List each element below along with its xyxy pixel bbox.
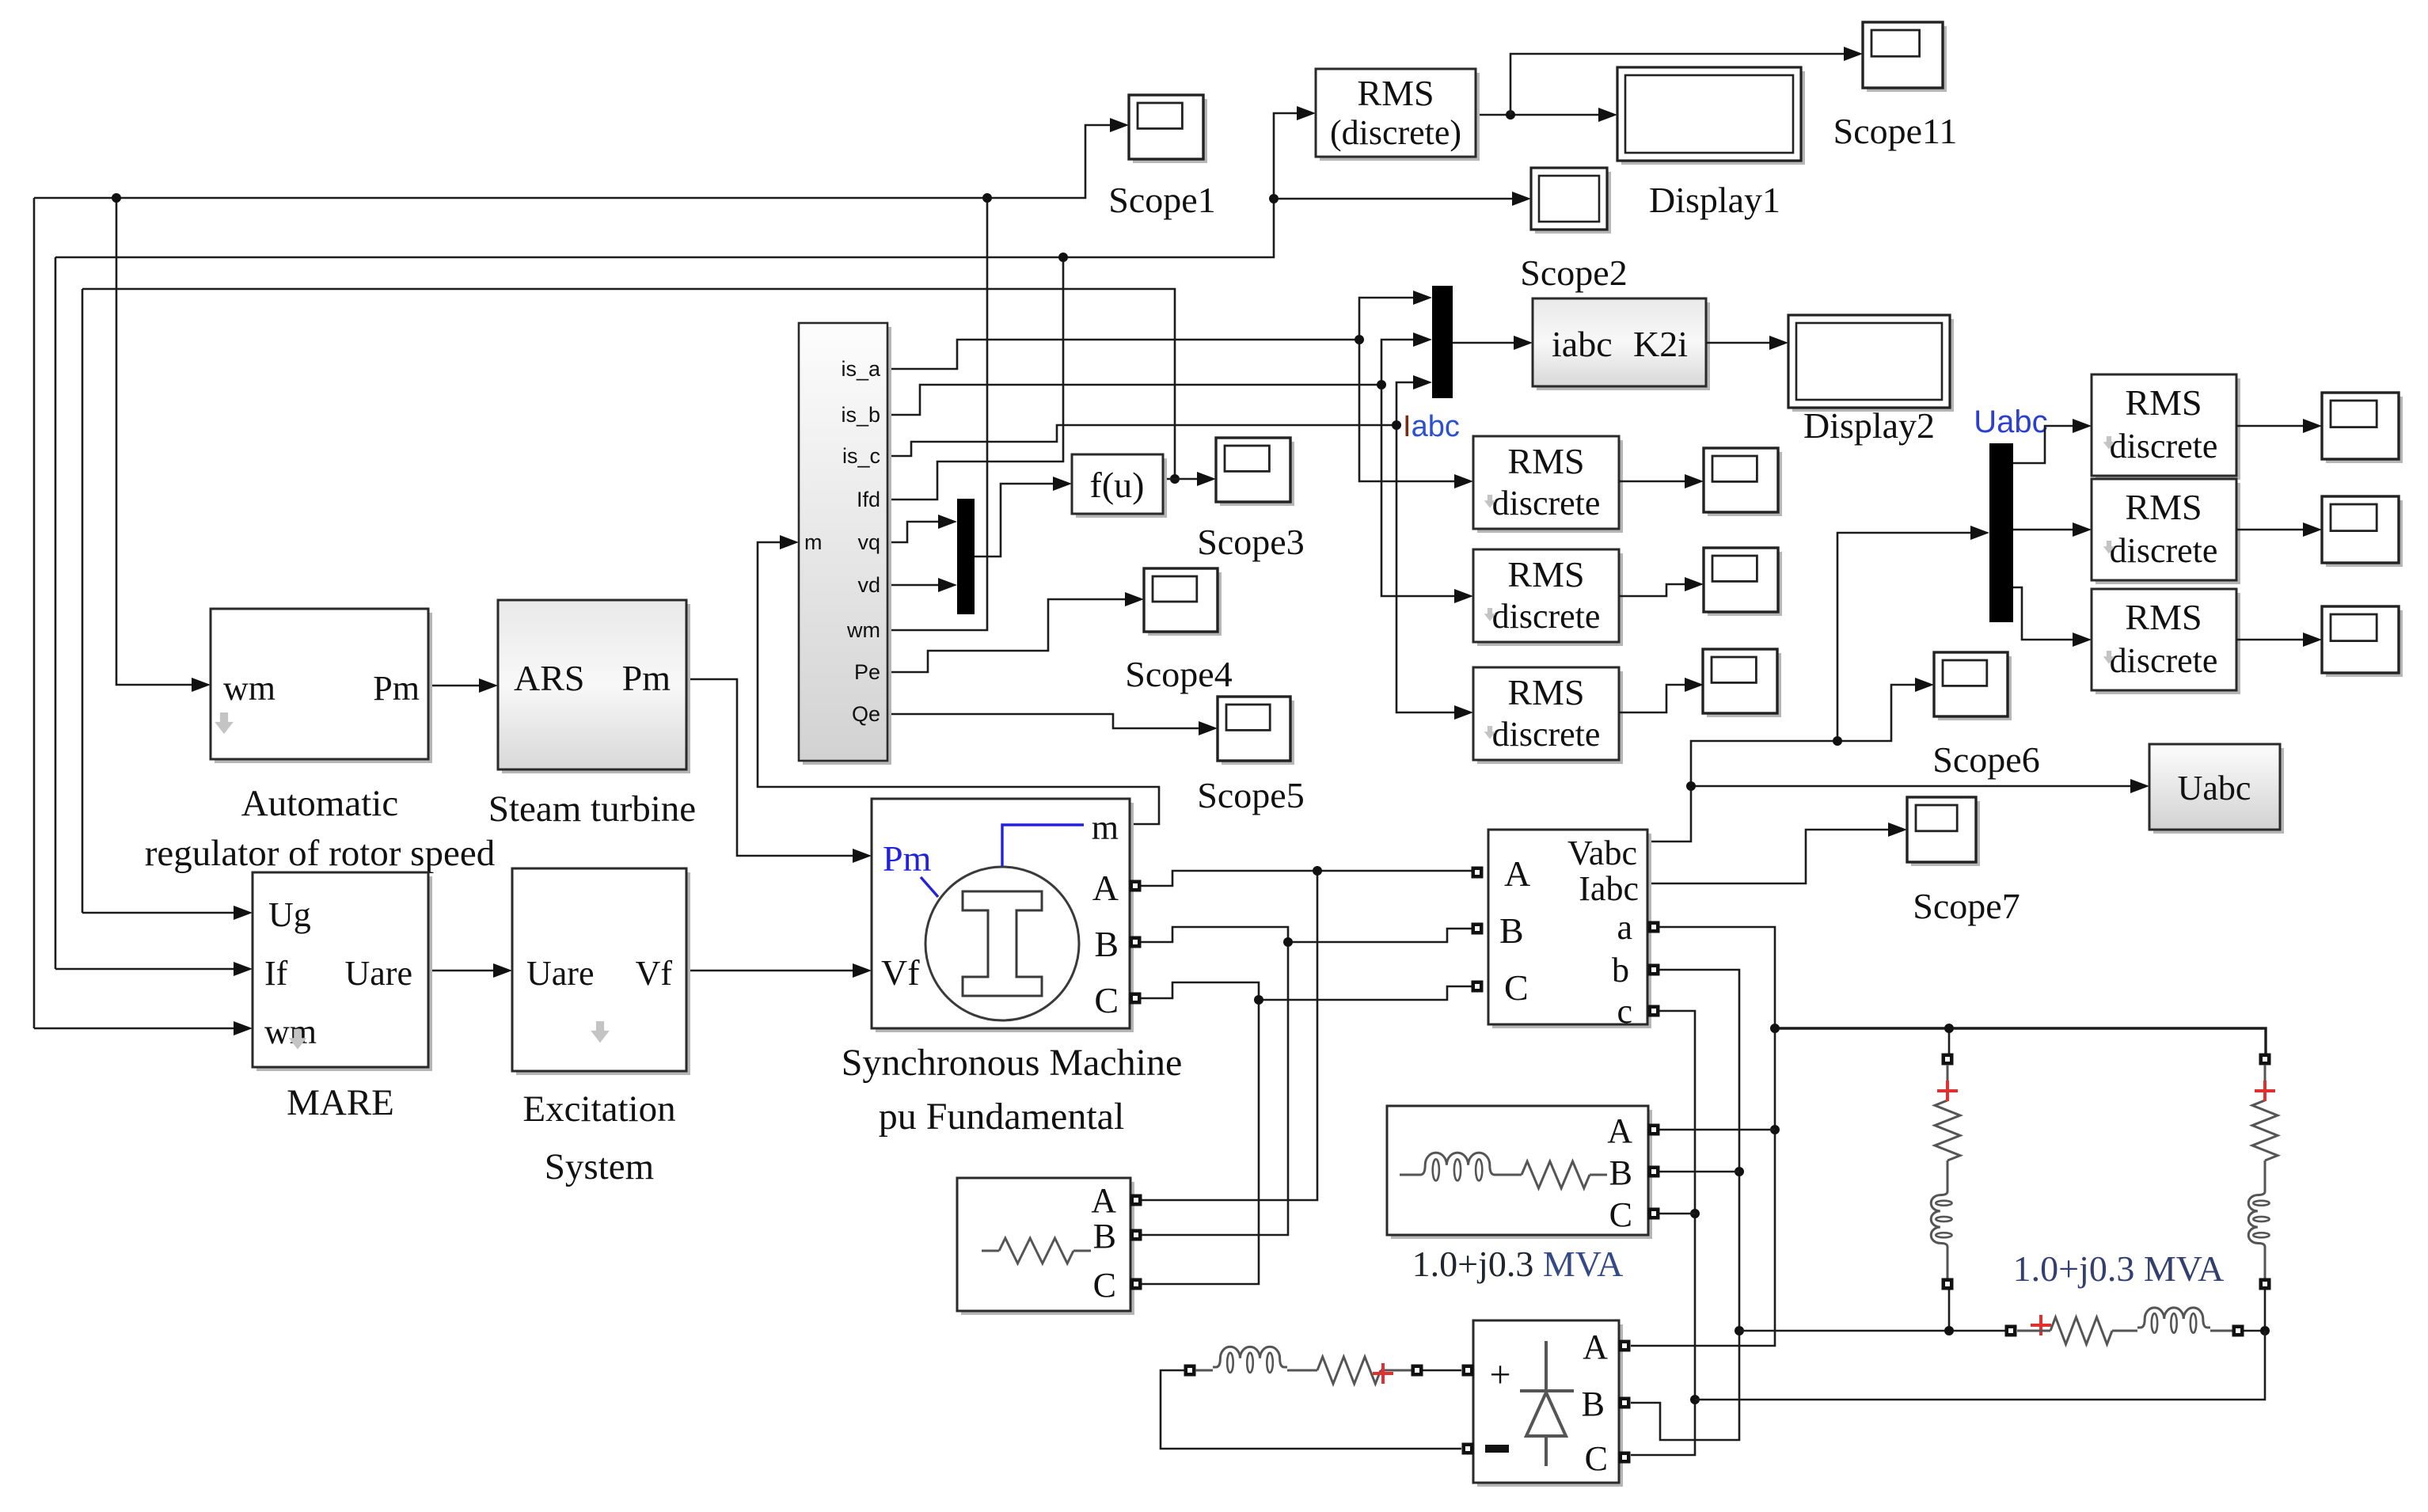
label load B xyxy=(1093,1217,1116,1256)
svg-text:A: A xyxy=(1504,853,1530,894)
wire RL stub xyxy=(1195,1370,1213,1372)
wire bar out1 xyxy=(2013,419,2092,463)
wire MVA load C wire xyxy=(1659,1213,1695,1215)
svg-text:A: A xyxy=(1583,1328,1608,1366)
port MVA C conn xyxy=(1648,1208,1660,1220)
svg-text:B: B xyxy=(1093,1217,1116,1256)
wire h branch right stub xyxy=(2210,1330,2232,1332)
svg-text:discrete: discrete xyxy=(1492,597,1601,636)
port left branch top port xyxy=(1942,1054,1954,1066)
wire is_b to mux input 2 xyxy=(1381,332,1432,385)
node junction is_c Iabc xyxy=(1392,420,1401,430)
label Uabc goto label xyxy=(2178,769,2251,807)
wire bottom b horizontal xyxy=(1739,1330,2005,1332)
label RMS right2 line2 xyxy=(2110,531,2218,570)
label RMS top line2 xyxy=(1330,113,1461,152)
svg-text:Scope11: Scope11 xyxy=(1833,111,1958,151)
svg-text:C: C xyxy=(1504,967,1529,1008)
wire Pe to Scope4 xyxy=(889,592,1144,672)
scope icon right scope1 xyxy=(2322,393,2403,463)
node junction Vabc goto xyxy=(1686,781,1696,791)
svg-text:a: a xyxy=(1617,908,1632,947)
gray arrow RMS mid3 sample xyxy=(1484,726,1496,739)
label Display1 xyxy=(1649,180,1780,220)
svg-text:discrete: discrete xyxy=(1492,484,1601,522)
label Uabc signal label xyxy=(1974,405,2047,439)
port VI C conn xyxy=(1472,981,1484,993)
label bus port is_c xyxy=(842,444,880,468)
svg-text:RMS: RMS xyxy=(2125,382,2202,423)
svg-text:RMS: RMS xyxy=(1507,554,1584,595)
label bus port Qe xyxy=(852,702,880,726)
wire mux to iabc K2i xyxy=(1453,336,1533,350)
scope icon Scope4 xyxy=(1144,568,1222,636)
wire RMS discrete output to Display xyxy=(1476,108,1617,122)
port h branch left port xyxy=(2005,1325,2017,1337)
label RMS mid3 line2 xyxy=(1492,715,1601,754)
label 1.0+j0.3 MVA right xyxy=(2013,1248,2225,1289)
gray arrow RMS mid2 sample xyxy=(1484,608,1496,621)
svg-text:vq: vq xyxy=(857,530,880,554)
svg-text:discrete: discrete xyxy=(1492,715,1601,754)
node junction Vabc Scope6 xyxy=(1833,736,1842,746)
svg-text:Iabc: Iabc xyxy=(1579,869,1639,908)
port rect B conn xyxy=(1619,1397,1631,1409)
svg-text:1.0+j0.3 MVA: 1.0+j0.3 MVA xyxy=(1412,1244,1624,1284)
svg-text:C: C xyxy=(1609,1195,1632,1234)
node junction is_b xyxy=(1377,380,1386,389)
scope icon right scope2 xyxy=(2322,496,2403,567)
inductor RL inductor xyxy=(1213,1347,1287,1373)
label Ug port xyxy=(268,895,311,934)
port VI B conn xyxy=(1472,923,1484,935)
port MVA A conn xyxy=(1648,1124,1660,1136)
label regulator of rotor speed xyxy=(145,833,495,874)
node junction Ifd to line B xyxy=(1058,253,1068,262)
label MARE xyxy=(287,1082,394,1123)
svg-text:discrete: discrete xyxy=(2110,531,2218,570)
inductor MVA load inductor xyxy=(1417,1153,1498,1180)
node junction line B riser x1609 xyxy=(1269,194,1279,203)
label RMS mid2 line1 xyxy=(1507,554,1584,595)
label Pm port xyxy=(373,669,420,708)
block Steam turbine ARS xyxy=(498,600,690,773)
block Uabc goto xyxy=(2149,744,2284,834)
label Synchronous Machine xyxy=(842,1042,1183,1084)
display icon Display1 xyxy=(1531,168,1611,234)
node junction a bus left xyxy=(1770,1024,1780,1033)
svg-text:(discrete): (discrete) xyxy=(1330,113,1461,152)
svg-text:Scope5: Scope5 xyxy=(1197,775,1304,815)
wire left branch lower stub xyxy=(1947,1249,1949,1278)
svg-text:K2i: K2i xyxy=(1633,324,1688,364)
inductor h branch inductor xyxy=(2137,1308,2210,1333)
svg-text:Display2: Display2 xyxy=(1803,405,1935,446)
wire bar out2 xyxy=(2013,522,2092,537)
wire is_a to RMS discrete 1 xyxy=(1359,340,1473,488)
node junction line A x1247 xyxy=(982,193,992,203)
node junction phase B xyxy=(1283,937,1293,947)
svg-text:RMS: RMS xyxy=(2125,597,2202,637)
label RMS mid3 line1 xyxy=(1507,672,1584,712)
scope icon Scope6 xyxy=(1934,652,2012,720)
wire MVA load B wire xyxy=(1659,1171,1739,1173)
svg-text:B: B xyxy=(1499,910,1524,951)
svg-text:is_c: is_c xyxy=(842,444,880,468)
svg-text:m: m xyxy=(1092,808,1119,847)
label bus port vq xyxy=(857,530,880,554)
wire bar out3 xyxy=(2013,587,2092,647)
label RMS right1 line1 xyxy=(2125,382,2202,423)
wire left branch bottom link xyxy=(1948,1290,1951,1331)
svg-text:Scope2: Scope2 xyxy=(1520,253,1627,293)
label VI C xyxy=(1504,967,1529,1008)
port machine A conn xyxy=(1130,880,1142,892)
block iabc K2i xyxy=(1533,298,1710,390)
wire MARE Uare to Excitation xyxy=(428,963,512,978)
svg-text:RMS: RMS xyxy=(2125,487,2202,527)
wire machine phase C to V-I C xyxy=(1141,982,1472,1000)
port VI c conn xyxy=(1648,1005,1660,1017)
wire right RLC link xyxy=(2244,1330,2265,1332)
wire Qe to Scope5 xyxy=(889,714,1218,735)
wire is_c to mux input 3 xyxy=(1396,375,1432,425)
svg-text:Scope3: Scope3 xyxy=(1197,522,1304,562)
wire RMS mid3 out xyxy=(1619,678,1704,712)
block Fcn f(u) xyxy=(1072,454,1167,518)
port rect plus conn xyxy=(1462,1365,1474,1377)
svg-text:discrete: discrete xyxy=(2110,641,2218,680)
gray arrow RMS mid1 sample xyxy=(1484,495,1496,508)
block Synchronous Machine xyxy=(872,799,1134,1032)
svg-text:MARE: MARE xyxy=(287,1082,394,1123)
svg-text:Vf: Vf xyxy=(881,952,920,993)
port rect C conn xyxy=(1619,1452,1631,1464)
label bus port Ifd xyxy=(857,488,880,511)
label MVA C xyxy=(1609,1195,1632,1234)
wire right branch lower stub xyxy=(2264,1249,2267,1278)
label machine B port xyxy=(1094,924,1119,964)
svg-text:If: If xyxy=(264,954,288,993)
wire MARE Ug input xyxy=(82,906,253,920)
block MARE xyxy=(253,872,432,1071)
wire If left vertical xyxy=(55,257,57,969)
svg-text:C: C xyxy=(1094,980,1119,1020)
label bus port wm xyxy=(846,618,880,642)
display icon Display xyxy=(1617,67,1805,165)
label Uare in port xyxy=(526,954,595,993)
svg-text:Excitation: Excitation xyxy=(522,1088,675,1130)
svg-text:+: + xyxy=(1489,1354,1510,1396)
scope icon Scope7 xyxy=(1907,797,1980,866)
port rect A conn xyxy=(1619,1340,1631,1352)
wire MVA load A wire xyxy=(1659,1129,1775,1131)
scope icon right scope3 xyxy=(2322,606,2403,677)
node junction phase A xyxy=(1313,866,1322,876)
label System xyxy=(545,1146,654,1187)
wire Ug left vertical xyxy=(82,289,84,913)
wire Vabc to bus bar xyxy=(1647,526,1989,841)
svg-text:Iabc: Iabc xyxy=(1403,410,1460,443)
port rect minus conn xyxy=(1462,1443,1474,1455)
label Uare out port xyxy=(345,954,413,993)
resistor in RLC load xyxy=(982,1238,1091,1263)
port machine B conn xyxy=(1130,936,1142,948)
mux Scope2 iabc xyxy=(1432,286,1453,398)
wire RMS mid1 out xyxy=(1619,474,1704,488)
svg-text:Ifd: Ifd xyxy=(857,488,880,511)
label pu Fundamental xyxy=(879,1096,1125,1138)
wire Iabc to Scope7 xyxy=(1647,822,1907,883)
wire phase C branch to RLC load C xyxy=(1142,1000,1259,1284)
resistor right branch xyxy=(2252,1065,2278,1189)
scope icon Scope1 xyxy=(1129,95,1207,163)
label rect C xyxy=(1585,1439,1608,1478)
wire Vabc branch to Uabc goto xyxy=(1691,779,2149,793)
svg-text:vd: vd xyxy=(857,573,880,597)
wire bottom c horizontal xyxy=(1695,1331,2265,1400)
label Scope6 xyxy=(1932,739,2039,780)
wire Vabc branch to Scope6 xyxy=(1837,678,1934,741)
svg-text:Ug: Ug xyxy=(268,895,311,934)
wire MARE wm input xyxy=(34,1021,253,1035)
red plus left branch plus xyxy=(1937,1081,1958,1101)
label rect A xyxy=(1583,1328,1608,1366)
block Three-Phase V-I Measurement xyxy=(1488,830,1651,1028)
svg-text:Vabc: Vabc xyxy=(1567,834,1637,872)
label VI c xyxy=(1617,992,1632,1031)
block bus selector xyxy=(799,323,891,765)
port RL left port xyxy=(1184,1365,1196,1377)
wire If line B to RMS discrete input xyxy=(55,106,1316,257)
label ARS port xyxy=(514,658,584,698)
scope icon mid scope3 xyxy=(1703,649,1781,717)
port load C conn xyxy=(1130,1278,1142,1290)
svg-text:discrete: discrete xyxy=(2110,427,2218,465)
wire machine phase B to V-I B xyxy=(1141,927,1472,942)
svg-text:iabc: iabc xyxy=(1552,324,1613,364)
label Vf out port xyxy=(636,954,673,993)
wire f(u) output to Scope3 xyxy=(1163,472,1216,486)
port h branch right port xyxy=(2232,1325,2244,1337)
label VI a xyxy=(1617,908,1632,947)
port RL right port xyxy=(1412,1365,1423,1377)
wire branch to Scope11 xyxy=(1510,47,1863,115)
wire ARS Pm to machine Pm xyxy=(686,679,872,863)
machine rotor circle xyxy=(925,867,1079,1020)
port left branch bottom port xyxy=(1942,1278,1954,1290)
node junction left branch bottom xyxy=(1944,1326,1954,1335)
label Pm blue xyxy=(883,838,938,897)
node junction phase C xyxy=(1254,995,1263,1005)
port VI a conn xyxy=(1648,921,1660,933)
label VI b xyxy=(1612,951,1629,990)
block diode rectifier xyxy=(1473,1320,1623,1487)
svg-text:c: c xyxy=(1617,992,1632,1031)
label f(u) xyxy=(1090,465,1145,505)
node junction f(u) output xyxy=(1170,474,1180,484)
wire right branch bottom link xyxy=(2264,1290,2267,1331)
svg-text:Synchronous Machine: Synchronous Machine xyxy=(842,1042,1183,1084)
wire wm feedback line A to Scope1 xyxy=(34,118,1129,198)
label machine A port xyxy=(1092,868,1119,908)
wire m loop machine to bus selector xyxy=(758,535,1159,824)
wire branch to Display1 xyxy=(1274,192,1531,206)
bus bar Uabc demux xyxy=(1989,443,2013,622)
svg-text:is_a: is_a xyxy=(841,357,881,381)
wire branch to Automatic regulator wm xyxy=(116,198,211,692)
wire phase a vertical to rectifier A xyxy=(1631,927,1775,1346)
svg-text:ARS: ARS xyxy=(514,658,584,698)
label VI Iabc xyxy=(1579,869,1639,908)
wire Automatic regulator Pm to ARS xyxy=(428,678,498,693)
svg-text:f(u): f(u) xyxy=(1090,465,1145,505)
label 1.0+j0.3 MVA left xyxy=(1412,1244,1624,1284)
wire machine phase A to V-I A xyxy=(1141,871,1472,886)
svg-text:is_b: is_b xyxy=(841,403,880,427)
node junction line A x147 xyxy=(112,193,121,203)
label Scope5 xyxy=(1197,775,1304,815)
node junction c bottom xyxy=(1690,1395,1700,1404)
label MVA A xyxy=(1607,1111,1632,1150)
wire MARE If input xyxy=(55,962,253,976)
wire branch to left RLC top xyxy=(1948,1028,1951,1054)
label RMS mid1 line2 xyxy=(1492,484,1601,522)
resistor in MVA load xyxy=(1400,1161,1607,1188)
label Steam turbine xyxy=(488,788,696,830)
svg-text:Vf: Vf xyxy=(636,954,673,993)
gray arrow MARE sample xyxy=(289,1029,306,1050)
block RMS discrete mid1 xyxy=(1473,436,1623,533)
label bus port is_a xyxy=(841,357,881,381)
wire wm feedback left vertical to MARE wm xyxy=(33,198,36,1028)
label rect minus xyxy=(1485,1445,1509,1453)
wire dc loop wire xyxy=(1161,1370,1461,1449)
wire K2i to Display2 xyxy=(1706,336,1788,350)
label RMS mid1 line1 xyxy=(1507,441,1584,481)
svg-text:B: B xyxy=(1094,924,1119,964)
wire mux output to f(u) xyxy=(975,477,1072,557)
svg-text:Scope7: Scope7 xyxy=(1913,886,2020,926)
node junction RMS output xyxy=(1506,110,1515,120)
wire Ifd riser from bus selector xyxy=(889,257,1063,500)
svg-text:Qe: Qe xyxy=(852,702,880,726)
label Scope2 xyxy=(1520,253,1627,293)
label load C xyxy=(1093,1266,1116,1305)
label bus m port xyxy=(804,530,823,554)
wire is_c line xyxy=(889,425,1396,456)
wire phase B branch to RLC load B xyxy=(1142,942,1288,1235)
label VI Vabc xyxy=(1567,834,1637,872)
node junction a bus mid xyxy=(1944,1024,1954,1033)
mux vq vd xyxy=(957,499,975,614)
resistor left branch xyxy=(1935,1065,1960,1189)
port VI b conn xyxy=(1648,964,1660,976)
label Scope11 xyxy=(1833,111,1958,151)
wire RL to rectifier plus xyxy=(1423,1370,1461,1372)
wire phase b vertical to rectifier B xyxy=(1631,970,1739,1440)
wire is_a to mux input 1 xyxy=(1359,291,1432,340)
block Automatic regulator of rotor speed xyxy=(211,609,432,763)
svg-text:Pe: Pe xyxy=(854,660,880,684)
wire RMS right1 out xyxy=(2236,419,2322,433)
scope icon Scope3 xyxy=(1216,438,1294,506)
label MVA B xyxy=(1609,1153,1632,1192)
gray arrow regulator sample xyxy=(215,712,234,734)
label ARS Pm port xyxy=(622,658,671,698)
svg-text:wm: wm xyxy=(846,618,880,642)
wire is_b to RMS discrete 2 xyxy=(1381,385,1473,603)
scope icon Scope11 xyxy=(1863,22,1947,92)
port right branch top port xyxy=(2259,1054,2271,1066)
wire is_c to RMS discrete 3 xyxy=(1396,425,1473,720)
block RMS discrete mid3 xyxy=(1473,667,1623,764)
svg-text:b: b xyxy=(1612,951,1629,990)
block RMS discrete top xyxy=(1316,69,1480,161)
inductor left branch inductor xyxy=(1931,1189,1951,1249)
scope icon mid scope2 xyxy=(1704,548,1782,616)
svg-text:A: A xyxy=(1607,1111,1632,1150)
port load B conn xyxy=(1130,1229,1142,1241)
svg-text:Pm: Pm xyxy=(883,838,932,879)
label Scope7 xyxy=(1913,886,2020,926)
gray arrow RMS right3 sample xyxy=(2103,651,2115,664)
red plus h branch plus xyxy=(2031,1315,2051,1335)
svg-text:1.0+j0.3 MVA: 1.0+j0.3 MVA xyxy=(2013,1248,2225,1289)
gray arrow RMS right1 sample xyxy=(2103,436,2115,450)
node junction is_a xyxy=(1355,335,1364,344)
wire wm riser from bus selector xyxy=(889,198,987,630)
label VI A xyxy=(1504,853,1530,894)
port right branch bottom port xyxy=(2259,1278,2271,1290)
wire vd to mux xyxy=(889,578,957,592)
svg-text:Scope4: Scope4 xyxy=(1125,654,1232,694)
resistor RL xyxy=(1317,1357,1412,1384)
svg-text:Pm: Pm xyxy=(622,658,671,698)
label RMS right3 line1 xyxy=(2125,597,2202,637)
svg-text:Steam turbine: Steam turbine xyxy=(488,788,696,830)
label rect plus xyxy=(1489,1354,1510,1396)
label machine m port xyxy=(1092,808,1119,847)
label RMS mid2 line2 xyxy=(1492,597,1601,636)
svg-text:A: A xyxy=(1092,868,1119,908)
port MVA B conn xyxy=(1648,1166,1660,1178)
svg-text:Display1: Display1 xyxy=(1649,180,1780,220)
wire phase c vertical to rectifier C xyxy=(1631,1011,1695,1455)
node junction b bottom xyxy=(1735,1326,1744,1335)
label MARE wm port xyxy=(264,1012,317,1051)
svg-text:m: m xyxy=(804,530,823,554)
svg-text:wm: wm xyxy=(264,1012,317,1051)
node junction c load xyxy=(1690,1209,1700,1218)
red plus right branch plus xyxy=(2255,1081,2275,1101)
label RMS right2 line1 xyxy=(2125,487,2202,527)
svg-text:Uabc: Uabc xyxy=(2178,769,2251,807)
label Iabc signal xyxy=(1403,410,1460,443)
block RMS discrete right2 xyxy=(2092,479,2240,584)
wire Ug line from f(u) output xyxy=(82,289,1175,479)
svg-text:pu Fundamental: pu Fundamental xyxy=(879,1096,1125,1138)
scope icon Scope5 xyxy=(1218,697,1294,765)
svg-text:B: B xyxy=(1609,1153,1632,1192)
label Display2 xyxy=(1803,405,1935,446)
label VI B xyxy=(1499,910,1524,951)
label iabc xyxy=(1552,324,1613,364)
svg-text:Uabc: Uabc xyxy=(1974,405,2047,439)
label RMS right1 line2 xyxy=(2110,427,2218,465)
block three-phase RLC load xyxy=(957,1178,1134,1315)
wire is_b line xyxy=(889,385,1381,415)
